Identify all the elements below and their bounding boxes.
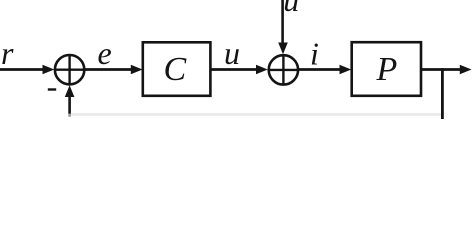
minus sign at S1: [48, 88, 56, 90]
svg-text:P: P: [376, 51, 398, 88]
svg-text:u: u: [283, 0, 299, 18]
svg-text:C: C: [164, 51, 187, 88]
summing junction S2: [269, 55, 298, 84]
svg-text:e: e: [98, 35, 112, 71]
block P: [352, 42, 421, 96]
wire e: S1 to C: [84, 68, 134, 71]
wire feedback drop at T junction: [441, 68, 444, 119]
wire feedback riser into S1: [68, 95, 71, 114]
svg-text:r: r: [1, 35, 14, 71]
arrowhead into summing junction S2: [256, 65, 268, 75]
arrowhead up into S1: [65, 85, 75, 97]
summing junction S1: [55, 55, 84, 84]
wire disturbance: top into S2: [281, 0, 284, 45]
wire feedback riser fade: [68, 114, 71, 117]
svg-text:i: i: [310, 36, 319, 72]
wire feedback bottom (faded): [69, 113, 441, 116]
arrowhead into block P: [340, 65, 352, 75]
wire output: P to right edge: [421, 68, 462, 71]
arrowhead into block C: [131, 65, 143, 75]
wire i: S2 to P: [298, 68, 342, 71]
svg-text:u: u: [224, 35, 240, 71]
wire r input: [0, 68, 45, 71]
block C: [143, 42, 211, 96]
arrowhead into summing junction S1: [43, 65, 55, 75]
arrowhead down into S2: [278, 43, 288, 55]
arrowhead output: [460, 65, 472, 75]
wire u: C to S2: [210, 68, 258, 71]
